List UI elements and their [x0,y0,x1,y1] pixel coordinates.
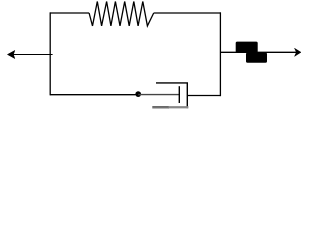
junction node dot [135,91,141,97]
friction element upper block [236,42,258,53]
dashpot piston plate [178,86,180,103]
top-right wire [154,12,221,14]
right lead wire [220,51,296,53]
dashpot piston rod [138,94,179,96]
spring (zigzag) [89,2,154,26]
left vertical wire [49,12,51,95]
top-left wire [50,12,89,14]
friction element lower block [246,53,267,63]
dashpot cylinder bottom shadow (dark segment underlight) [152,107,169,109]
bottom wire (left of junction) [50,94,139,96]
dashpot cylinder bottom shadow (gray segment) [169,106,189,108]
bottom wire (right of dashpot) [187,95,221,97]
left force arrowhead [7,50,14,58]
dashpot cylinder (top and right wall) [156,83,187,108]
right vertical wire [219,12,221,96]
right force arrowhead [295,48,302,56]
left lead wire [13,54,53,56]
dashpot cylinder bottom shadow (dark segment) [152,106,169,108]
